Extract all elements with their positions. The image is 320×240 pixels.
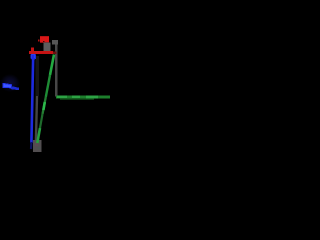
red line dark right extension — [53, 51, 57, 54]
gray thin pole P2 — [55, 45, 58, 97]
red vertical tick (cross) — [31, 48, 34, 56]
blue arrow dash (left) — [0, 74, 20, 92]
gray bar B1 (wide pole under flag) — [44, 43, 51, 53]
background — [0, 0, 110, 155]
gray bottom block — [33, 140, 42, 152]
blue vertical line dark tail — [30, 142, 33, 149]
gray pole segment P1 (below bottom rect area) — [36, 96, 37, 142]
gray block B2 (top of thin pole) — [52, 40, 58, 45]
green diagonal line — [37, 55, 54, 144]
red horizontal line — [29, 51, 53, 54]
green horizontal ground line — [56, 95, 110, 100]
blue vertical line — [31, 55, 33, 143]
red flag blob — [38, 36, 49, 43]
faint column shadow A — [36, 56, 40, 96]
blue marker at top of vertical line — [31, 54, 36, 59]
